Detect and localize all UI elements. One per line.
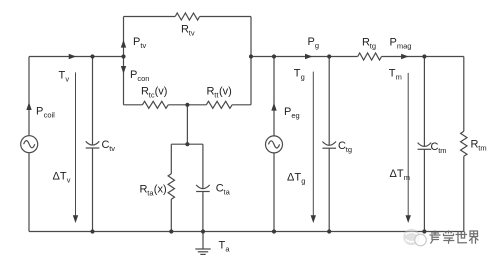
svg-text:P: P — [130, 69, 137, 81]
label T_g — [294, 68, 305, 82]
node P_eg bottom — [272, 229, 276, 233]
svg-text:m: m — [404, 173, 410, 182]
label R_tm — [471, 138, 487, 152]
watermark char jie — [470, 231, 479, 243]
label dT_v — [53, 171, 71, 185]
wire C_tg branch lower — [328, 148, 330, 231]
svg-text:(x): (x) — [154, 183, 167, 195]
source P_eg — [266, 136, 283, 153]
source P_coil — [21, 136, 38, 153]
watermark char sheng — [430, 231, 440, 243]
svg-text:tg: tg — [370, 41, 376, 50]
resistor R_tm — [461, 131, 467, 156]
svg-text:ΔT: ΔT — [390, 168, 404, 180]
label R_tg — [362, 36, 376, 50]
svg-text:ta: ta — [224, 187, 231, 196]
svg-text:tv: tv — [189, 28, 195, 37]
capacitor C_tg — [322, 142, 336, 149]
wire box bottom mid-right — [187, 104, 206, 106]
arrow P_coil up — [26, 102, 31, 110]
resistor R_ta(x) — [168, 174, 174, 199]
label C_tg — [338, 140, 352, 154]
label P_mag — [390, 36, 412, 50]
node C_tm top — [422, 54, 426, 58]
svg-text:g: g — [301, 177, 305, 186]
svg-text:P: P — [133, 36, 140, 48]
wire C_ta lower lead — [202, 192, 204, 232]
wire box top-left segment — [124, 16, 176, 18]
label P_g — [308, 36, 320, 50]
label C_tv — [102, 139, 116, 153]
label P_tv — [133, 36, 146, 50]
svg-text:P: P — [308, 36, 315, 48]
svg-text:ΔT: ΔT — [287, 172, 301, 184]
svg-text:tv: tv — [140, 41, 146, 50]
arrow flow right on main wire — [69, 54, 77, 59]
svg-text:tg: tg — [346, 145, 352, 154]
wire P_eg branch lower — [273, 153, 275, 232]
wire P_eg branch upper — [273, 57, 275, 136]
svg-text:P: P — [284, 106, 291, 118]
resistor R_tv — [175, 13, 199, 20]
node T-junction — [185, 142, 189, 146]
node R_ta bottom — [169, 229, 173, 233]
wire C_tv branch lower — [92, 148, 94, 232]
svg-text:tm: tm — [478, 143, 486, 152]
wire box bottom-left segment — [124, 104, 143, 106]
wire P_coil branch lower — [28, 153, 30, 232]
svg-text:con: con — [137, 74, 149, 83]
wire box top-right segment — [200, 16, 251, 18]
svg-text:g: g — [301, 73, 305, 82]
svg-text:g: g — [315, 41, 319, 50]
capacitor C_tm — [418, 143, 432, 150]
label R_tc(v) — [141, 86, 167, 100]
svg-text:tv: tv — [109, 144, 115, 153]
wire C_tg branch upper — [328, 57, 330, 146]
node ground junction — [201, 229, 205, 233]
watermark char shi — [456, 232, 467, 243]
svg-text:P: P — [36, 106, 43, 118]
wire C_tv branch upper — [92, 57, 94, 145]
label R_ta(x) — [140, 183, 167, 197]
arrow P_eg up — [271, 103, 276, 111]
wire C_tm branch upper — [423, 57, 425, 147]
wire C_ta upper lead — [202, 144, 204, 188]
ground T_a stem — [202, 232, 204, 250]
arrow P_g flow right — [305, 54, 313, 59]
ground symbol — [195, 249, 210, 254]
node P_eg top — [272, 54, 276, 58]
wire bottom rail — [29, 231, 464, 233]
label T_v — [59, 70, 70, 84]
capacitor C_tv — [86, 141, 100, 148]
resistor R_tg — [358, 53, 382, 60]
svg-text:tm: tm — [438, 146, 446, 155]
wire box bottom-right segment — [232, 104, 251, 106]
node box left — [121, 54, 125, 58]
label R_tv — [181, 23, 195, 37]
wire main top-mid segment — [251, 56, 358, 58]
svg-text:C: C — [338, 140, 346, 152]
svg-text:R: R — [141, 86, 149, 98]
resistor R_tt(v) — [206, 101, 232, 108]
watermark char xue — [444, 231, 454, 243]
wire box bottom mid-left — [168, 104, 187, 106]
wire R_ta upper lead — [170, 144, 172, 174]
label P_coil — [36, 106, 55, 120]
svg-text:v: v — [65, 75, 69, 84]
node C_tm bottom — [422, 229, 426, 233]
label T_m — [389, 67, 402, 81]
svg-text:(v): (v) — [219, 86, 232, 98]
label C_tm — [431, 141, 447, 155]
arrow P_con down — [121, 66, 126, 74]
wire main top-right segment — [382, 56, 464, 58]
label T_a — [219, 239, 231, 253]
wire box right edge — [250, 17, 252, 105]
label dT_m — [390, 168, 411, 182]
wire center stem — [186, 105, 188, 144]
label P_eg — [284, 106, 300, 120]
svg-text:R: R — [362, 36, 370, 48]
node C_tg top — [327, 54, 331, 58]
wire P_coil branch upper — [28, 57, 30, 136]
svg-text:R: R — [471, 138, 479, 150]
label C_ta — [216, 182, 231, 196]
wire C_tm branch lower — [423, 149, 425, 231]
node C_tv top — [90, 54, 94, 58]
wire box left edge — [123, 17, 125, 105]
svg-text:ΔT: ΔT — [53, 171, 67, 183]
svg-text:m: m — [396, 72, 402, 81]
node box right — [249, 54, 253, 58]
label R_tt(v) — [207, 86, 232, 100]
node C_tv bottom — [90, 229, 94, 233]
wire main top-left segment — [29, 56, 124, 58]
svg-text:R: R — [140, 183, 148, 195]
wire R_tm branch lower — [463, 156, 465, 231]
watermark logo circle 1 — [403, 229, 420, 246]
svg-text:mag: mag — [397, 41, 412, 50]
arrow dT_g measurement — [311, 72, 316, 223]
resistor R_tc(v) — [142, 101, 168, 108]
arrow P_mag flow right — [401, 54, 409, 59]
capacitor C_ta — [196, 185, 210, 192]
svg-text:coil: coil — [44, 111, 56, 120]
arrow dT_m measurement — [406, 73, 411, 223]
svg-text:R: R — [181, 23, 189, 35]
node C_tg bottom — [327, 229, 331, 233]
svg-text:v: v — [67, 176, 71, 185]
watermark logo circle 2 — [415, 234, 427, 246]
svg-text:eg: eg — [291, 111, 299, 120]
svg-text:P: P — [390, 36, 397, 48]
arrow P_tv up — [121, 40, 126, 48]
wire R_ta lower lead — [170, 199, 172, 231]
node box bottom center — [185, 103, 189, 107]
wire R_tm branch upper — [463, 57, 465, 132]
arrow dT_v measurement — [73, 72, 78, 223]
wire T-bar — [171, 143, 203, 145]
label dT_g — [287, 172, 305, 186]
svg-text:(v): (v) — [155, 86, 168, 98]
svg-text:R: R — [207, 86, 215, 98]
label P_con — [130, 69, 149, 83]
